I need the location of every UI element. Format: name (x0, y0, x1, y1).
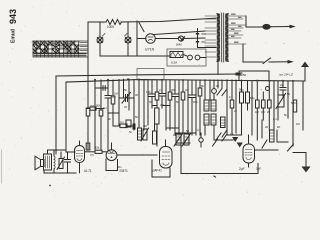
resistor R grid stopper V1 (85, 150, 107, 153)
wire drop x134 (133, 80, 135, 131)
capacitor C on y88 link (103, 86, 105, 91)
wire drop x119 (118, 80, 120, 126)
wire V2 bracket (106, 159, 118, 171)
wire drop x210 (209, 80, 211, 100)
wire EM link right (117, 154, 157, 156)
svg-text:0,5: 0,5 (159, 88, 163, 92)
resistor R heater dropper (106, 20, 122, 25)
svg-text:0,3: 0,3 (261, 110, 265, 114)
output transformer box (44, 154, 52, 170)
wire drop x56 (55, 76, 57, 154)
svg-text:2k: 2k (108, 117, 111, 121)
wire jog segment (239, 71, 269, 81)
svg-text:30: 30 (135, 93, 138, 97)
potentiometer P right (276, 94, 286, 109)
lamp La2 dial lamp (125, 22, 132, 56)
wire link y88 left (95, 87, 108, 89)
speaker LS (35, 156, 44, 169)
svg-text:50: 50 (186, 129, 189, 133)
switch S band2 (216, 133, 227, 141)
potentiometer P volume (57, 157, 65, 170)
wire rectifier cathode (155, 38, 178, 40)
tick mark bottom (214, 176, 216, 177)
wire stub x277 low (276, 130, 278, 142)
svg-text:50n: 50n (117, 165, 122, 169)
paper edge mark (1, 150, 3, 183)
value labels scatter (90, 84, 296, 169)
svg-text:1000: 1000 (107, 25, 114, 29)
wire link y142 right (277, 141, 288, 143)
wire link y133 det (176, 132, 196, 134)
transformer Tr secondary taps (229, 16, 246, 44)
tube V2 magic eye EM71 (106, 150, 117, 161)
component box mid (126, 120, 131, 127)
resistor R x157 (155, 92, 159, 100)
switch S ground (288, 144, 307, 167)
svg-text:0,1: 0,1 (229, 95, 233, 99)
svg-text:0,5: 0,5 (90, 153, 94, 157)
svg-text:2k: 2k (234, 109, 237, 113)
wire drop x278 (277, 81, 279, 120)
capacitor C x108 (105, 96, 111, 99)
resistor R x88 (86, 108, 90, 116)
labels secondary voltages (231, 14, 242, 43)
svg-text:J50: J50 (201, 40, 206, 44)
wire drop x196 (195, 80, 197, 135)
svg-text:Emud: Emud (11, 29, 17, 43)
coil L osc2 (221, 117, 226, 128)
diode D1 (212, 80, 217, 100)
registration dot (49, 185, 51, 187)
selector plugs (183, 55, 206, 60)
wire drop x288 (287, 81, 289, 118)
wire link y143 det (176, 142, 190, 144)
wire V4 anode top (248, 135, 250, 144)
resistor R x154 tall lower (153, 124, 157, 144)
arrow mains lower (288, 61, 292, 63)
diode D2 detector (199, 133, 203, 147)
fuse Si 0.2A (170, 52, 183, 58)
svg-text:100: 100 (173, 133, 178, 137)
capacitor C x152 (149, 94, 155, 97)
phono jack (260, 87, 270, 92)
wire link y128 (166, 127, 179, 129)
trimmer capacitor row (119, 93, 134, 104)
wire drop x113 (112, 80, 114, 125)
table band-switch grid (33, 41, 88, 57)
svg-text:2µF: 2µF (239, 167, 245, 171)
resistor R x157 tall (155, 108, 159, 124)
wire drop x293 (292, 81, 294, 146)
svg-text:5n: 5n (129, 130, 132, 134)
switch S det (213, 139, 218, 146)
resistor R row 3 (268, 81, 272, 130)
wire bottom return long (181, 143, 258, 174)
wire tube V1 cathode bottom (79, 163, 81, 173)
table cross marks (33, 41, 87, 56)
svg-text:UAF41: UAF41 (152, 169, 162, 173)
wire link y135 right (227, 134, 242, 136)
wire drop x188 (187, 80, 189, 133)
wire stub x123 (123, 79, 125, 98)
wire mains line upper (246, 26, 262, 28)
wire OT top link (48, 150, 67, 154)
svg-text:10k: 10k (95, 146, 100, 150)
tube V4 UCH42 (243, 144, 255, 163)
svg-text:50µ: 50µ (250, 96, 255, 100)
wire stub x129 (128, 79, 130, 110)
svg-text:~: ~ (283, 41, 285, 45)
wire drop x157 (156, 80, 158, 146)
arrow mains upper (290, 25, 294, 27)
wire pot top (60, 152, 62, 159)
wire link y105 mid (152, 105, 157, 107)
resistor R x170 (168, 92, 172, 100)
resistor R row 1 (256, 81, 260, 140)
wire drop x175 (174, 80, 176, 135)
resistor R x183 (181, 92, 185, 100)
svg-text:1M: 1M (296, 122, 300, 126)
wire drop x183 (182, 80, 184, 133)
wire V4 right link (255, 149, 279, 151)
transformer Tr secondary winding (225, 14, 228, 62)
wire drop x66 (65, 82, 67, 152)
capacitor C tone (65, 152, 71, 172)
wire drop x88 lower (87, 76, 89, 108)
resistor R x200 (198, 88, 202, 96)
switch S1 wave change (217, 89, 227, 96)
wire heater bus to transformer (121, 18, 216, 22)
wire heater bus top (88, 21, 106, 23)
wire x88 to EM (87, 116, 89, 150)
svg-text:100: 100 (146, 90, 151, 94)
IF can outline top (137, 69, 164, 81)
svg-text:500: 500 (291, 101, 296, 105)
wire drop x214 low (213, 125, 215, 140)
potentiometer P mid (141, 128, 149, 141)
transformer Tr primary taps (205, 16, 216, 57)
transformer Tr core (222, 13, 224, 62)
tube V1 output UL71 (75, 146, 85, 163)
antenna arrow (302, 63, 308, 82)
svg-text:ZF: ZF (277, 125, 281, 129)
wire drop x227 (226, 80, 228, 135)
wire drop x205 (204, 80, 206, 100)
wire drop x192 (191, 80, 193, 135)
resistor R x88 low (86, 143, 90, 150)
wire rectifier anode drop (136, 21, 138, 56)
resistor R x232 (230, 100, 234, 108)
svg-text:20: 20 (265, 125, 268, 129)
ground arrow (303, 167, 310, 172)
svg-text:0,3: 0,3 (197, 128, 201, 132)
wire drop x236 (235, 80, 237, 133)
svg-text:5k: 5k (124, 88, 128, 92)
wire V3 anode top (165, 140, 167, 147)
junction dots on bus (94, 78, 294, 82)
svg-text:6040: 6040 (176, 43, 182, 47)
capacitor C EM (133, 124, 135, 129)
svg-text:0,1: 0,1 (103, 106, 107, 110)
wire drop x179 (178, 80, 180, 135)
svg-text:0,2A: 0,2A (171, 61, 177, 65)
wire drop x252 (251, 81, 253, 135)
wire rectifier top link (154, 31, 205, 35)
wire drop x205 low (204, 125, 206, 135)
svg-text:ZF: ZF (216, 84, 220, 88)
fuse mains (262, 24, 271, 29)
svg-text:300: 300 (171, 88, 176, 92)
wire drop x303 (302, 81, 304, 130)
wire drop x218 (217, 80, 219, 88)
svg-text:~: ~ (260, 88, 262, 92)
svg-text:5k: 5k (201, 84, 204, 88)
wire drop x232 (231, 80, 233, 135)
svg-text:UL71: UL71 (84, 169, 92, 173)
electrolytic C filter 1 (240, 81, 244, 135)
wire drop x108 (107, 80, 109, 150)
choke coil L out (54, 150, 55, 172)
capacitor C x162 (159, 94, 165, 97)
wire grid row y152 (66, 151, 75, 153)
capacitor C x283 (280, 81, 286, 96)
svg-text:50: 50 (243, 73, 247, 77)
svg-text:1M: 1M (143, 124, 147, 128)
wire drop x148 (147, 80, 149, 126)
wire V3 bottom bracket (152, 160, 170, 177)
switch S osc3 (222, 130, 227, 137)
resistor R row 2 (262, 92, 266, 120)
svg-text:50: 50 (135, 115, 138, 119)
wire V4 cathode down (248, 163, 250, 167)
wire drop x101 (100, 80, 102, 150)
svg-text:100: 100 (193, 100, 198, 104)
wire link y113 (108, 112, 119, 114)
svg-text:0,1: 0,1 (273, 117, 277, 121)
capacitor C x192 (189, 95, 195, 98)
capacitor C line filter upper (196, 29, 199, 48)
svg-text:22: 22 (280, 83, 284, 87)
tube V3 UAF41 (160, 147, 173, 169)
wire secondary lower leg (242, 44, 244, 62)
IF transformer coils (204, 100, 216, 125)
wire drop x222 (221, 80, 223, 88)
wire drop x200 (199, 80, 201, 135)
resistor R x113 (111, 96, 115, 104)
wire drop x166 (165, 80, 167, 130)
wire stub x262 low (261, 120, 263, 138)
svg-text:50µ: 50µ (239, 88, 244, 92)
resistor R horizontal EM feed (113, 124, 133, 128)
lamp La3 pilot (178, 36, 205, 41)
wire drop x95 (94, 80, 96, 150)
svg-text:20: 20 (124, 105, 127, 109)
svg-text:943: 943 (8, 9, 18, 24)
wire link y140 ratio (214, 139, 233, 141)
wire V2 top feed (111, 143, 113, 150)
diode D4 ratio (238, 143, 242, 147)
capacitor C x175 (172, 94, 178, 97)
wire mains to plug upper (271, 26, 291, 28)
rail A upper bus (56, 74, 240, 76)
tube U1 rectifier UY1N (137, 23, 155, 44)
wire drop x152 (151, 80, 153, 108)
wire drop x139 (138, 80, 140, 129)
svg-text:1M: 1M (114, 92, 118, 96)
switch mains (243, 58, 289, 64)
box voltage selector unit (167, 49, 206, 66)
resistor R x101 (99, 110, 103, 116)
svg-text:0,1: 0,1 (120, 120, 124, 124)
svg-text:50: 50 (149, 100, 152, 104)
resistor R x95 horizontal (87, 107, 104, 110)
resistor R x295 (293, 100, 296, 112)
svg-text:nur 29² LZ: nur 29² LZ (279, 73, 293, 77)
wire drop x274 (273, 81, 275, 130)
wire transformer bottom to rail (217, 62, 219, 74)
IF transformer det coil b (182, 133, 191, 146)
svg-text:5k: 5k (284, 113, 287, 117)
switch S osc (262, 140, 267, 148)
capacitor C on jog (236, 71, 242, 81)
svg-text:50: 50 (287, 92, 290, 96)
svg-text:EM71: EM71 (120, 169, 129, 173)
wire drop x170 (169, 80, 171, 130)
svg-text:1M: 1M (255, 110, 259, 114)
wire drop x162 (161, 80, 163, 108)
wire lamp return (100, 55, 171, 57)
wire tube V1 anode top (79, 141, 81, 146)
coil L detector (138, 128, 142, 140)
lamp La1 dial lamp (97, 22, 105, 56)
electrolytic C filter 2 (246, 81, 250, 110)
IF transformer det coil a (174, 133, 183, 146)
wire bottom left return (44, 170, 76, 173)
svg-text:50k: 50k (96, 104, 101, 108)
coil L osc (270, 130, 275, 142)
wire left leg vertical (87, 22, 89, 76)
diode D3 ratio (233, 138, 237, 142)
svg-text:1M: 1M (185, 88, 189, 92)
svg-text:UY1N: UY1N (145, 48, 155, 52)
wire secondary top tap out (245, 16, 247, 27)
rail B main bus (66, 80, 305, 83)
svg-text:2µF: 2µF (256, 167, 261, 171)
svg-text:50: 50 (176, 100, 179, 104)
capacitor C line filter lower (196, 41, 199, 43)
wire filter bottom (198, 47, 217, 49)
wire link y105 mid2 (162, 105, 170, 107)
svg-text:25: 25 (267, 110, 270, 114)
transformer Tr primary winding (217, 14, 220, 62)
wire drop x144 (143, 80, 145, 131)
